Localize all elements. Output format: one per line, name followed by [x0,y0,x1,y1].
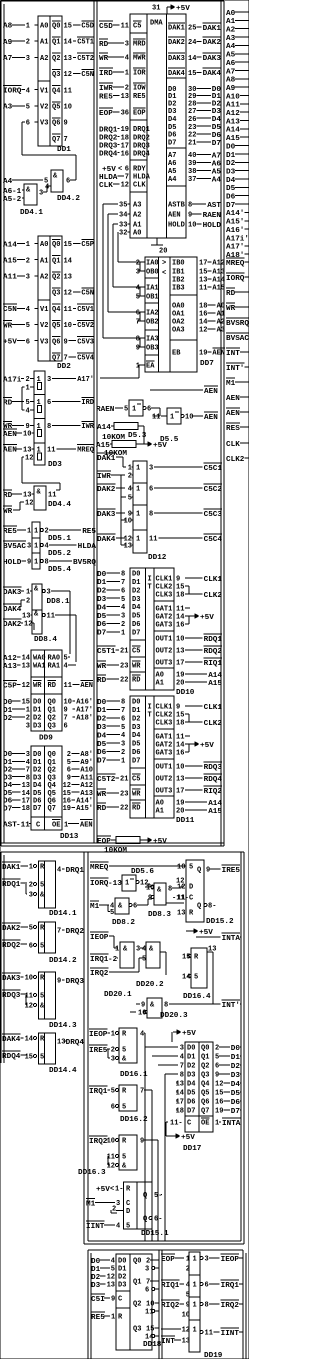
svg-text:1: 1 [215,1120,219,1128]
svg-text:A1: A1 [226,18,236,26]
svg-text:Q2: Q2 [201,1063,209,1071]
svg-text:M1: M1 [226,380,236,388]
svg-text:D4: D4 [132,732,140,740]
svg-text:EA: EA [146,363,155,371]
svg-text:IRQ1: IRQ1 [221,1282,240,1290]
svg-text:WR: WR [132,791,141,799]
svg-text:Q6: Q6 [52,338,60,346]
svg-text:WA0: WA0 [33,655,46,663]
svg-text:5: 5 [26,399,30,407]
svg-text:WR: WR [33,682,42,690]
svg-text:8: 8 [180,1072,184,1080]
svg-text:DAK4: DAK4 [2,1036,21,1044]
svg-text:OUT2: OUT2 [156,648,173,656]
svg-text:Q4: Q4 [52,306,60,314]
svg-text:WR: WR [226,305,236,313]
svg-text:C5P: C5P [81,241,94,249]
svg-text:MREQ: MREQ [226,260,245,268]
svg-text:D7: D7 [3,805,13,813]
svg-text:D2: D2 [3,767,13,775]
svg-text:13: 13 [23,492,31,500]
svg-text:9: 9 [57,978,61,986]
svg-text:Q2: Q2 [52,55,60,63]
svg-text:DD8.4: DD8.4 [34,636,57,644]
svg-text:RE5: RE5 [99,93,113,101]
svg-text:4: 4 [116,1223,120,1231]
svg-text:5: 5 [40,882,44,890]
svg-text:INT': INT' [226,365,244,373]
svg-text:RD: RD [3,399,13,407]
svg-text:9: 9 [186,1302,190,1310]
svg-text:19: 19 [63,805,71,813]
svg-text:4: 4 [45,184,49,192]
svg-text:DAK2: DAK2 [97,486,116,494]
svg-text:8: 8 [47,423,51,431]
svg-text:5: 5 [128,495,132,503]
svg-text:3: 3 [26,723,30,731]
svg-text:38: 38 [188,168,196,176]
svg-text:C5C4: C5C4 [204,536,223,544]
svg-text:12: 12 [121,182,129,190]
svg-text:RDQ3: RDQ3 [204,764,223,772]
svg-text:5: 5 [121,596,125,604]
svg-text:CLK3: CLK3 [156,592,173,600]
svg-text:8-: 8- [208,903,216,911]
svg-text:C5V2: C5V2 [77,322,94,330]
svg-text:IINT: IINT [86,1223,105,1231]
svg-text:11: 11 [64,87,72,95]
svg-text:12: 12 [24,621,32,629]
svg-text:A4: A4 [212,176,222,184]
svg-text:D3: D3 [212,108,222,116]
svg-text:1: 1 [128,465,132,473]
svg-text:5: 5 [122,1154,126,1162]
svg-text:A4: A4 [168,176,176,184]
svg-text:12: 12 [22,682,30,690]
svg-text:A1: A1 [156,808,164,816]
svg-text:9: 9 [64,338,68,346]
svg-text:&: & [123,946,128,954]
svg-text:OUT2: OUT2 [156,776,173,784]
svg-text:DD14.2: DD14.2 [49,957,77,965]
svg-text:&: & [122,1163,127,1171]
svg-text:15: 15 [146,1326,154,1334]
svg-text:11: 11 [199,285,207,293]
svg-text:DD2: DD2 [57,363,71,371]
svg-text:1: 1 [193,1302,197,1310]
svg-text:IRQ1: IRQ1 [89,1088,108,1096]
svg-text:2: 2 [128,473,132,481]
svg-text:DRQ3: DRQ3 [66,978,85,986]
svg-text:OUT3: OUT3 [156,788,173,796]
svg-text:A15: A15 [212,285,225,293]
svg-text:IORQ: IORQ [3,88,22,96]
svg-text:&: & [157,887,162,895]
svg-text:13: 13 [22,782,30,790]
svg-text:CLK2: CLK2 [204,592,223,600]
svg-text:1: 1 [136,511,140,519]
svg-text:DAK4: DAK4 [168,70,185,78]
svg-text:9: 9 [27,559,31,567]
svg-text:15: 15 [22,699,30,707]
svg-text:DD9: DD9 [39,734,53,742]
svg-text:Q1: Q1 [48,707,56,715]
svg-text:21: 21 [120,776,128,784]
svg-text:10: 10 [64,322,72,330]
svg-text:21: 21 [188,140,196,148]
svg-text:20: 20 [176,680,184,688]
svg-text:5: 5 [124,406,128,414]
svg-text:1: 1 [26,241,30,249]
svg-text:4: 4 [121,604,125,612]
svg-text:DD18: DD18 [143,1341,162,1349]
svg-text:DAK4: DAK4 [203,70,222,78]
svg-text:CLK2: CLK2 [204,720,223,728]
svg-text:R: R [118,1314,123,1322]
svg-text:D0: D0 [33,751,41,759]
svg-text:D1: D1 [187,1054,195,1062]
svg-text:D2: D2 [187,1063,195,1071]
svg-text:11: 11 [149,536,157,544]
svg-text:2: 2 [136,260,140,268]
svg-text:6: 6 [145,1287,149,1295]
svg-text:A9: A9 [226,85,236,93]
svg-text:13: 13 [107,1282,115,1290]
svg-text:A0: A0 [40,241,48,249]
svg-text:5: 5 [136,294,140,302]
svg-text:RE5: RE5 [133,93,146,101]
svg-text:3: 3 [47,589,51,597]
svg-text:D4: D4 [187,1081,195,1089]
svg-text:7: 7 [125,174,129,182]
svg-text:7: 7 [140,1088,144,1096]
svg-text:2: 2 [146,1258,150,1266]
svg-text:C5C2: C5C2 [204,486,223,494]
svg-text:INT: INT [161,1338,175,1346]
svg-text:1: 1 [121,757,125,765]
svg-text:6: 6 [149,486,153,494]
svg-text:1: 1 [132,406,136,414]
svg-text:4: 4 [128,486,132,494]
svg-text:DD13: DD13 [60,833,79,841]
svg-text:15: 15 [188,70,196,78]
svg-text:Q4: Q4 [48,782,56,790]
svg-text:DD16.3: DD16.3 [78,1169,106,1177]
svg-text:Q3: Q3 [48,723,56,731]
svg-text:6: 6 [111,1104,115,1112]
svg-text:D: D [189,884,193,892]
svg-text:WR: WR [3,508,13,516]
svg-text:13: 13 [176,776,184,784]
svg-text:D7: D7 [33,805,41,813]
svg-text:35: 35 [119,202,127,210]
svg-text:16: 16 [176,622,184,630]
svg-text:9: 9 [188,212,192,220]
svg-text:6: 6 [121,587,125,595]
svg-text:&: & [149,946,154,954]
svg-text:16: 16 [199,311,207,319]
svg-text:DRQ1: DRQ1 [66,867,85,875]
svg-text:A4: A4 [226,43,236,51]
svg-text:Q2: Q2 [52,274,60,282]
svg-text:17: 17 [199,260,207,268]
svg-text:10: 10 [107,1138,115,1146]
svg-text:14: 14 [199,319,207,327]
svg-text:32: 32 [119,230,127,238]
svg-text:D7: D7 [97,630,107,638]
svg-text:A17i': A17i' [226,235,249,243]
svg-text:Q4: Q4 [52,87,60,95]
svg-text:Q2: Q2 [48,715,56,723]
svg-text:11: 11 [48,492,56,500]
svg-text:6: 6 [66,178,70,186]
svg-text:A14: A14 [97,424,111,432]
svg-text:23: 23 [120,663,128,671]
svg-text:D2: D2 [231,1063,241,1071]
svg-text:+5V: +5V [199,929,213,937]
svg-text:19: 19 [121,126,129,134]
svg-text:D7: D7 [132,629,140,637]
svg-text:RD: RD [132,805,140,813]
svg-text:A15: A15 [208,680,222,688]
svg-text:DAK3: DAK3 [203,55,222,63]
svg-text:<: < [118,166,122,174]
svg-text:IA1: IA1 [146,285,159,293]
svg-text:D6: D6 [226,194,236,202]
svg-text:CLK1: CLK1 [156,576,173,584]
svg-text:4: 4 [186,1282,190,1290]
svg-text:A2: A2 [226,27,236,35]
svg-text:OA1: OA1 [172,311,185,319]
svg-text:D3: D3 [226,169,236,177]
svg-text:A17i: A17i [3,376,22,384]
svg-text:Q0: Q0 [133,1258,141,1266]
svg-text:DAK1: DAK1 [168,25,185,33]
svg-text:D0: D0 [187,1045,195,1053]
svg-text:DAK1: DAK1 [2,864,21,872]
svg-text:Q1: Q1 [201,1054,209,1062]
svg-text:1: 1 [27,528,31,536]
svg-text:1: 1 [136,465,140,473]
svg-text:C5N: C5N [81,290,94,298]
svg-text:33: 33 [119,222,127,230]
svg-text:23: 23 [188,124,196,132]
svg-text:15: 15 [64,241,72,249]
svg-text:DD14.4: DD14.4 [49,1067,77,1075]
svg-text:Q3: Q3 [201,1072,209,1080]
svg-text:D5: D5 [97,613,107,621]
svg-text:10: 10 [177,864,185,872]
svg-text:A15': A15' [226,219,244,227]
svg-text:Q1: Q1 [133,1279,141,1287]
svg-text:INT: INT [226,350,240,358]
svg-text:5: 5 [40,993,44,1001]
svg-text:IA3: IA3 [146,336,159,344]
svg-text:+5V: +5V [200,614,214,622]
svg-text:D0: D0 [231,1045,241,1053]
svg-text:DD4.1: DD4.1 [20,209,43,217]
svg-text:3: 3 [121,741,125,749]
svg-text:9: 9 [215,1072,219,1080]
svg-text:6: 6 [64,723,68,731]
svg-text:DAK3: DAK3 [97,511,116,519]
svg-text:D4: D4 [226,177,236,185]
svg-text:D5: D5 [212,124,222,132]
svg-text:19: 19 [176,672,184,680]
svg-text:WA1: WA1 [33,663,46,671]
svg-text:V2: V2 [40,322,48,330]
svg-text:D1: D1 [132,707,140,715]
svg-text:5: 5 [194,974,198,982]
svg-text:13: 13 [57,1039,65,1047]
svg-text:3: 3 [136,946,140,954]
svg-text:19: 19 [199,350,207,358]
svg-text:A3: A3 [226,35,236,43]
svg-text:4: 4 [121,732,125,740]
svg-text:D6: D6 [168,132,176,140]
svg-text:C5C3: C5C3 [204,511,223,519]
svg-text:3: 3 [111,1056,115,1064]
svg-text:A17': A17' [76,707,93,715]
svg-text:D3: D3 [91,1282,101,1290]
svg-text:A18': A18' [226,252,244,260]
svg-text:C: C [118,1296,122,1304]
svg-text:IEOP: IEOP [89,1031,108,1039]
svg-text:HOLD: HOLD [203,222,222,230]
svg-text:D4: D4 [33,782,41,790]
svg-text:15: 15 [215,1090,223,1098]
svg-text:14: 14 [188,55,196,63]
svg-text:IEOP: IEOP [221,1256,240,1264]
svg-text:D1: D1 [132,579,140,587]
svg-text:A9: A9 [3,39,13,47]
svg-text:DAK4: DAK4 [3,606,22,614]
svg-text:37: 37 [188,176,196,184]
svg-text:D0: D0 [33,699,41,707]
svg-text:BV5RQ: BV5RQ [73,559,96,567]
svg-text:A5: A5 [212,168,222,176]
svg-text:&: & [37,489,42,497]
svg-text:10: 10 [64,699,72,707]
svg-text:6: 6 [136,310,140,318]
svg-text:D0: D0 [3,699,13,707]
svg-text:DD5.2: DD5.2 [48,550,71,558]
svg-text:9: 9 [64,120,68,128]
svg-text:Q3: Q3 [52,290,60,298]
svg-text:6: 6 [125,166,129,174]
svg-text:7: 7 [64,715,68,723]
svg-text:D6: D6 [33,797,41,805]
svg-text:V1: V1 [40,306,48,314]
svg-text:D1: D1 [97,707,107,715]
svg-text:RDY: RDY [133,166,146,174]
svg-text:A1: A1 [133,222,141,230]
svg-text:RAEN: RAEN [203,212,222,220]
svg-text:Q2: Q2 [133,1301,141,1309]
svg-text:10: 10 [188,222,196,230]
svg-text:Q2: Q2 [48,767,56,775]
svg-text:13: 13 [177,910,185,918]
svg-text:5: 5 [40,943,44,951]
svg-text:OA0: OA0 [172,303,185,311]
svg-text:AEN: AEN [80,682,93,690]
svg-text:DRQ3: DRQ3 [99,143,118,151]
svg-text:-2: -2 [12,196,22,204]
svg-text:9: 9 [176,576,180,584]
svg-text:11: 11 [121,23,129,31]
svg-text:HLDA: HLDA [133,174,151,182]
svg-text:DD4.2: DD4.2 [57,195,80,203]
svg-text:A8': A8' [80,751,93,759]
svg-text:8: 8 [164,1002,168,1010]
svg-text:3: 3 [39,190,43,198]
svg-text:IB1: IB1 [172,269,185,277]
svg-text:4: 4 [136,285,140,293]
svg-text:D4: D4 [97,604,107,612]
svg-text:D2: D2 [91,1274,101,1282]
svg-text:T: T [148,712,152,720]
svg-text:WR: WR [3,322,13,330]
svg-text:6: 6 [121,715,125,723]
svg-text:IORQ: IORQ [226,275,245,283]
svg-text:IWR: IWR [81,423,94,431]
svg-text:HLDA: HLDA [99,174,118,182]
svg-text:A6: A6 [226,60,236,68]
svg-text:Q0: Q0 [201,1045,209,1053]
svg-text:MWR: MWR [133,55,146,63]
svg-text:RDQ3: RDQ3 [2,992,21,1000]
svg-text:D4: D4 [212,116,222,124]
svg-text:DD11: DD11 [176,817,195,825]
svg-text:IRD: IRD [81,399,94,407]
svg-text:IB3: IB3 [172,285,185,293]
svg-text:D3: D3 [97,724,107,732]
svg-text:Q7: Q7 [52,355,60,363]
svg-text:A18': A18' [76,715,93,723]
svg-text:27: 27 [188,108,196,116]
svg-text:D4: D4 [231,1081,241,1089]
svg-text:AEN: AEN [226,410,240,418]
svg-text:20: 20 [159,248,167,256]
svg-text:D6: D6 [3,798,13,806]
svg-text:C: C [36,821,40,829]
svg-text:2: 2 [26,715,30,723]
svg-text:DAK1: DAK1 [203,25,222,33]
svg-text:A13: A13 [226,118,240,126]
svg-text:13: 13 [22,663,30,671]
svg-text:A14': A14' [226,210,244,218]
svg-text:4: 4 [64,663,68,671]
svg-text:7: 7 [26,767,30,775]
svg-text:Q0: Q0 [48,699,56,707]
svg-text:D2: D2 [132,587,140,595]
svg-text:7: 7 [64,355,68,363]
svg-text:2: 2 [121,749,125,757]
svg-text:R: R [194,954,199,962]
svg-text:IA2: IA2 [146,310,159,318]
svg-text:RES: RES [226,425,240,433]
svg-text:10KOM: 10KOM [104,847,127,855]
svg-text:D5: D5 [187,1090,195,1098]
svg-text:A7: A7 [212,152,222,160]
svg-text:1: 1 [136,486,140,494]
svg-text:IRE5: IRE5 [89,1047,108,1055]
svg-text:6: 6 [133,903,137,911]
svg-text:IOR: IOR [133,70,146,78]
svg-text:DD15.2: DD15.2 [206,918,234,926]
svg-text:A0: A0 [156,672,164,680]
svg-text:4: 4 [26,306,30,314]
